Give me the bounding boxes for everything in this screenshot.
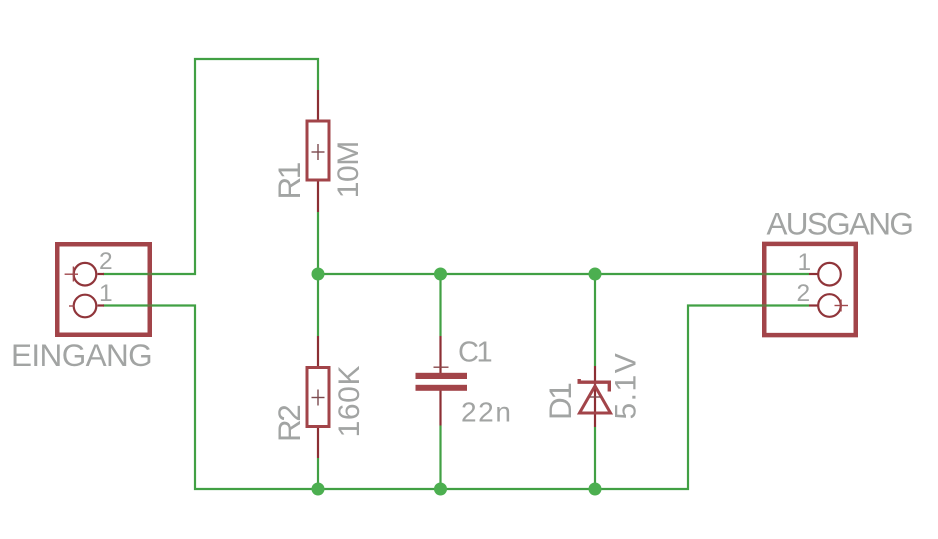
svg-text:2: 2 xyxy=(99,248,113,275)
svg-text:160K: 160K xyxy=(333,365,366,437)
svg-text:D1: D1 xyxy=(542,384,578,420)
svg-text:22n: 22n xyxy=(461,397,513,428)
svg-text:1: 1 xyxy=(99,280,113,307)
svg-text:R2: R2 xyxy=(271,406,307,442)
svg-text:EINGANG: EINGANG xyxy=(11,337,152,373)
svg-text:5.1V: 5.1V xyxy=(610,352,643,420)
svg-text:2: 2 xyxy=(797,280,811,307)
svg-text:C1: C1 xyxy=(458,337,492,369)
svg-text:AUSGANG: AUSGANG xyxy=(767,206,913,242)
svg-text:10M: 10M xyxy=(332,141,365,198)
svg-text:R1: R1 xyxy=(271,163,307,199)
svg-text:1: 1 xyxy=(798,249,812,276)
